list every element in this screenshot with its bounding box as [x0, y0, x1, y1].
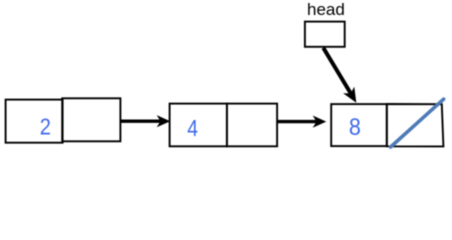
node3 data cell [331, 104, 387, 146]
null slash [391, 99, 444, 147]
node1 data cell [6, 100, 63, 143]
node2 pointer cell [227, 104, 277, 147]
head pointer box [305, 22, 345, 47]
node1 pointer cell [62, 98, 120, 141]
node2 data cell [170, 104, 227, 147]
svg-text:4: 4 [187, 115, 198, 141]
svg-text:2: 2 [40, 113, 51, 139]
wire arrow node2-to-node3 [278, 116, 326, 128]
node3 pointer cell [387, 104, 444, 146]
wire arrow node1-to-node2 [121, 115, 170, 127]
arrow head-to-node3 [323, 48, 356, 103]
svg-text:8: 8 [349, 114, 361, 141]
svg-text:head: head [307, 0, 345, 19]
